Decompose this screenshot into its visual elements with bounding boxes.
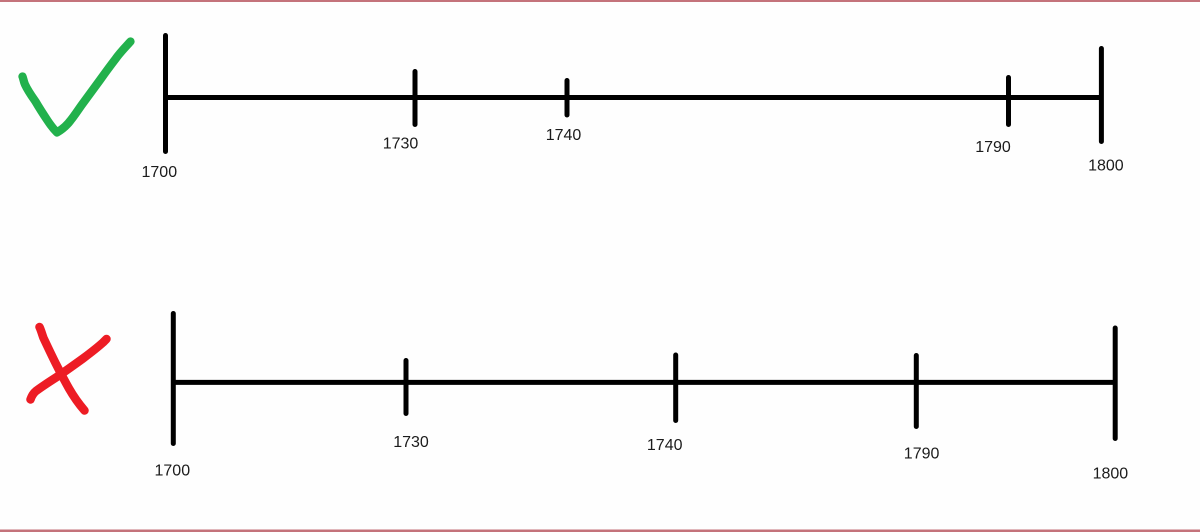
green checkmark (correct) [23, 42, 131, 133]
svg-text:1740: 1740 [546, 127, 582, 144]
bottom timeline: tick 1730 [404, 361, 409, 414]
svg-text:1800: 1800 [1093, 466, 1129, 483]
red X mark (incorrect), ascending stroke [31, 339, 107, 400]
svg-text:1790: 1790 [904, 445, 940, 462]
bottom timeline: tick 1740 [673, 355, 678, 421]
svg-text:1790: 1790 [975, 139, 1011, 156]
top timeline: horizontal axis [164, 95, 1102, 100]
svg-text:1730: 1730 [393, 434, 429, 451]
bottom timeline: tick 1790 [914, 356, 919, 427]
bottom timeline: horizontal axis [172, 380, 1116, 385]
top border bar [0, 0, 1200, 2]
bottom timeline: 1800 end line [1113, 328, 1118, 439]
svg-text:1730: 1730 [383, 136, 419, 153]
top timeline: 1700 end line [163, 36, 168, 152]
bottom border bar [0, 530, 1200, 532]
top timeline: tick 1740 [565, 81, 570, 116]
bottom timeline: 1700 end line [171, 314, 176, 444]
top timeline: 1800 end line [1099, 49, 1104, 142]
svg-text:1700: 1700 [155, 463, 191, 480]
svg-text:1700: 1700 [142, 164, 178, 181]
svg-text:1740: 1740 [647, 437, 683, 454]
red X mark (incorrect), descending stroke [40, 327, 85, 411]
top timeline: tick 1790 [1006, 78, 1011, 125]
top timeline: tick 1730 [413, 72, 418, 125]
svg-text:1800: 1800 [1088, 157, 1124, 174]
